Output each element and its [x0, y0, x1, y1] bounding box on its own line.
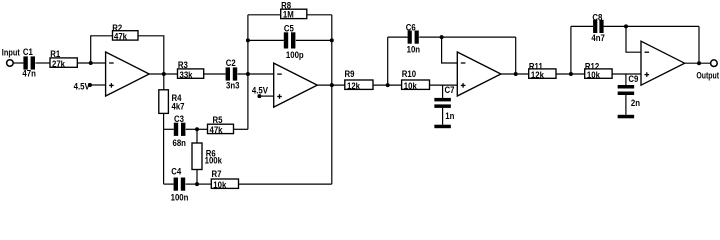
svg-text:Input: Input — [2, 47, 20, 58]
wire — [247, 15, 249, 130]
svg-text:47n: 47n — [22, 68, 35, 79]
svg-text:12k: 12k — [347, 80, 360, 91]
svg-text:C4: C4 — [171, 166, 181, 177]
resistor R8 — [281, 0, 307, 19]
svg-text:10k: 10k — [404, 80, 417, 91]
svg-text:10k: 10k — [587, 69, 600, 80]
svg-text:100n: 100n — [171, 192, 189, 201]
capacitor C3 — [173, 113, 186, 148]
ground (C9) — [618, 115, 635, 119]
4.5V supply to U1+ — [74, 81, 106, 92]
node C — [246, 72, 250, 76]
capacitor C4 — [171, 166, 189, 202]
node D — [246, 38, 250, 42]
svg-text:R7: R7 — [212, 168, 222, 179]
svg-text:4k7: 4k7 — [172, 101, 185, 112]
output terminal — [696, 60, 719, 81]
wire — [604, 25, 699, 27]
4.5V supply to U2+ — [252, 85, 274, 98]
svg-text:27k: 27k — [52, 58, 65, 69]
wire — [626, 26, 641, 52]
ground (C7) — [434, 125, 451, 129]
node F — [330, 83, 334, 87]
node J — [569, 72, 573, 76]
wire — [248, 14, 281, 16]
wire — [164, 128, 174, 130]
wire — [91, 36, 113, 63]
capacitor C1 — [22, 46, 35, 78]
resistor R1 — [50, 48, 77, 68]
wire — [317, 84, 345, 86]
node K — [624, 24, 628, 28]
capacitor C7 — [434, 84, 454, 121]
wire — [163, 74, 165, 90]
svg-text:3n3: 3n3 — [226, 80, 240, 91]
wire — [442, 85, 444, 98]
svg-text:C2: C2 — [226, 57, 236, 68]
svg-text:C6: C6 — [406, 22, 416, 33]
wire — [13, 62, 23, 64]
wire — [698, 26, 700, 63]
wire — [612, 73, 641, 75]
node I — [514, 72, 518, 76]
node G — [386, 83, 390, 87]
svg-text:12k: 12k — [531, 69, 544, 80]
node A — [89, 61, 93, 65]
svg-text:C9: C9 — [628, 73, 638, 84]
wire — [515, 37, 517, 74]
wire — [307, 14, 332, 16]
svg-text:68n: 68n — [173, 137, 186, 148]
op-amp U4 — [641, 41, 685, 85]
resistor R2 — [112, 22, 138, 41]
wire — [186, 183, 197, 185]
resistor R12 — [585, 61, 612, 80]
svg-text:R9: R9 — [345, 69, 355, 80]
resistor R11 — [529, 61, 556, 80]
capacitor C8 — [591, 12, 605, 43]
node E — [330, 38, 334, 42]
node H — [440, 35, 444, 39]
node B — [162, 72, 166, 76]
svg-text:2n: 2n — [631, 97, 640, 108]
wire — [501, 73, 529, 75]
resistor R5 — [208, 114, 234, 135]
svg-text:C5: C5 — [284, 23, 294, 34]
svg-text:100p: 100p — [286, 49, 304, 60]
svg-text:47k: 47k — [114, 31, 127, 42]
svg-text:C1: C1 — [23, 46, 33, 57]
resistor R10 — [402, 69, 430, 91]
wire — [239, 183, 332, 185]
capacitor C5 — [284, 23, 304, 60]
svg-text:33k: 33k — [180, 69, 193, 80]
wire — [77, 62, 105, 64]
wire — [373, 84, 402, 86]
svg-text:1n: 1n — [445, 110, 454, 121]
wire — [197, 128, 208, 130]
svg-text:10k: 10k — [213, 179, 226, 190]
svg-text:4n7: 4n7 — [591, 32, 605, 43]
node L — [697, 61, 701, 65]
capacitor C9 — [618, 73, 640, 108]
wire — [35, 62, 50, 64]
wire — [442, 108, 444, 125]
wire — [388, 36, 408, 38]
wire — [442, 37, 458, 63]
svg-text:R5: R5 — [213, 114, 223, 125]
svg-text:C8: C8 — [592, 12, 602, 23]
svg-text:C3: C3 — [174, 113, 184, 124]
svg-text:4.5V: 4.5V — [74, 81, 90, 92]
svg-text:100k: 100k — [205, 155, 223, 166]
wire — [331, 15, 333, 184]
svg-text:1M: 1M — [283, 9, 294, 20]
wire — [430, 84, 458, 86]
op-amp U1 — [106, 52, 150, 96]
op-amp U2 — [274, 63, 318, 107]
wire — [186, 128, 197, 130]
svg-text:R10: R10 — [402, 69, 417, 80]
wire — [164, 183, 174, 185]
op-amp U3 — [457, 52, 501, 96]
svg-text:C7: C7 — [445, 84, 455, 95]
wire — [238, 73, 274, 75]
node M — [195, 127, 199, 131]
svg-text:10n: 10n — [407, 44, 420, 55]
wire — [387, 37, 389, 85]
wire — [149, 73, 177, 75]
wire — [625, 74, 627, 85]
wire — [163, 113, 165, 184]
wire — [556, 73, 585, 75]
capacitor C6 — [406, 22, 420, 55]
svg-text:Output: Output — [696, 71, 719, 81]
wire — [197, 183, 211, 185]
node N — [195, 182, 199, 186]
wire — [138, 36, 164, 74]
svg-text:47k: 47k — [210, 124, 223, 135]
wire — [419, 36, 516, 38]
resistor R7 — [211, 168, 238, 190]
wire — [196, 129, 198, 143]
resistor R9 — [345, 69, 374, 91]
wire — [204, 73, 226, 75]
svg-text:4.5V: 4.5V — [252, 85, 268, 96]
wire — [571, 25, 593, 27]
resistor R6 — [192, 143, 222, 170]
wire — [248, 39, 284, 41]
wire — [685, 62, 711, 64]
resistor R3 — [178, 59, 204, 80]
wire — [296, 39, 332, 41]
wire — [234, 128, 248, 130]
wire — [196, 170, 198, 185]
input terminal — [2, 47, 20, 66]
wire — [625, 95, 627, 115]
wire — [570, 26, 572, 74]
capacitor C2 — [226, 57, 240, 91]
resistor R4 — [159, 90, 185, 114]
